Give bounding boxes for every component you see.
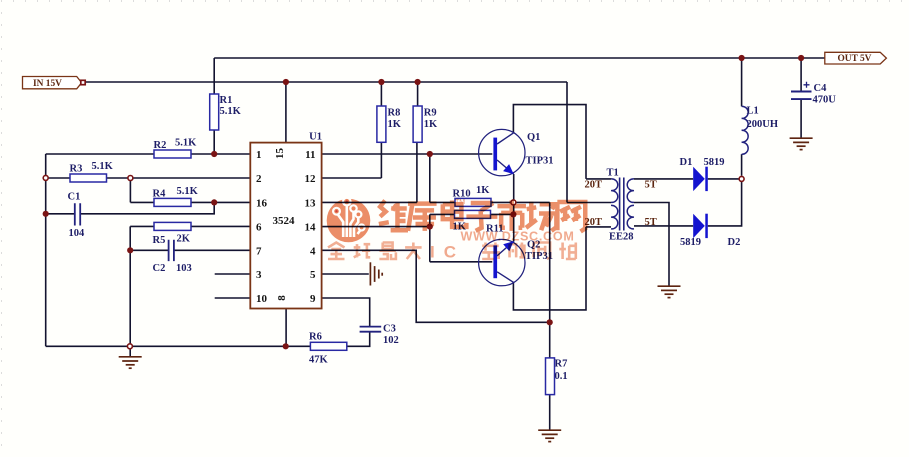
- ground (secondary center tap): [658, 286, 681, 297]
- svg-text:5.1K: 5.1K: [220, 106, 242, 117]
- svg-text:13: 13: [305, 198, 317, 210]
- svg-text:9: 9: [310, 293, 316, 305]
- junction: R4/pin16/C1: [211, 199, 217, 205]
- node IN 15V input port: [23, 77, 86, 90]
- resistor R11 1K: [455, 210, 491, 218]
- junction ring: R3 on ground bus: [43, 175, 48, 180]
- wire: C4 bottom to ground: [800, 99, 802, 137]
- wire: R2 right to pin 1: [191, 153, 250, 155]
- resistor R2 5.1K: [154, 150, 191, 158]
- wire: R5 right to pin 6: [191, 225, 250, 227]
- svg-text:R3: R3: [70, 164, 83, 175]
- junction: C2 branch: [127, 247, 133, 253]
- wire: bottom ground rail: [46, 345, 286, 347]
- junction: R11/emitter bus: [510, 211, 516, 217]
- wire: common emitter vertical: [513, 174, 515, 242]
- wire: pin 10 stub: [215, 297, 251, 299]
- wire joint: [213, 201, 215, 203]
- svg-text:WWW.DZSC.COM: WWW.DZSC.COM: [461, 230, 575, 244]
- transistor Q2 TIP31: [479, 239, 525, 285]
- svg-text:12: 12: [305, 173, 317, 185]
- svg-text:16: 16: [256, 198, 268, 210]
- wire: R10 right to emitter bus: [491, 201, 513, 203]
- wire: left ground bus vertical x=45.7: [45, 154, 47, 346]
- wire: output rail down to L1: [741, 58, 743, 106]
- svg-text:5: 5: [310, 269, 316, 281]
- wire: center-tap vertical x=567: [566, 82, 568, 203]
- wire: pin14 node vertical to R11/Q2 base: [429, 214, 431, 261]
- svg-text:R4: R4: [153, 189, 167, 200]
- capacitor C4 470U electrolytic: [791, 92, 812, 100]
- svg-text:R6: R6: [309, 332, 322, 343]
- ground (below C4): [790, 138, 813, 149]
- svg-text:5.1K: 5.1K: [92, 161, 114, 172]
- op-amp U1 3524 PWM controller box: [250, 143, 321, 309]
- junction ring: pin2 node: [128, 176, 133, 181]
- svg-text:10: 10: [256, 293, 268, 305]
- wire: pin 14 row: [322, 226, 430, 228]
- wire: pin 4 current sense run: [322, 250, 550, 322]
- wire: Q2 collector to T1 primary bottom: [513, 227, 586, 310]
- svg-text:Q1: Q1: [527, 132, 540, 143]
- svg-text:3: 3: [256, 269, 262, 281]
- wire: pin 13 to R9 bottom: [322, 201, 417, 203]
- wire: pin 11 to Q1 base: [322, 153, 493, 155]
- svg-text:OUT 5V: OUT 5V: [838, 54, 872, 64]
- svg-text:C4: C4: [814, 83, 828, 94]
- resistor R4 5.1K: [154, 198, 191, 206]
- svg-text:102: 102: [383, 335, 399, 346]
- svg-text:EE28: EE28: [609, 232, 634, 243]
- wire: secondary top to D1: [634, 178, 693, 180]
- svg-text:R9: R9: [424, 108, 437, 119]
- wire: to R11 left: [430, 213, 455, 215]
- svg-text:0.1: 0.1: [555, 371, 568, 382]
- svg-text:R1: R1: [220, 95, 233, 106]
- wire: R8 top: [380, 82, 382, 106]
- wire: pin11 node down to R10 left: [429, 154, 431, 202]
- svg-text:6: 6: [256, 222, 262, 234]
- resistor R9 1K: [413, 106, 422, 142]
- wire: pin15 supply from IN rail: [285, 82, 287, 143]
- svg-text:3524: 3524: [273, 215, 296, 227]
- wire: pin 12 to R8 bottom: [322, 177, 382, 179]
- svg-text:TIP31: TIP31: [526, 156, 554, 167]
- ground (below R7): [538, 430, 561, 441]
- junction: pin11 node: [427, 151, 433, 157]
- svg-text:L1: L1: [747, 106, 759, 117]
- wire: down to R7 top node: [549, 202, 551, 322]
- svg-text:1K: 1K: [388, 119, 402, 130]
- wire: pin 5 to ground: [322, 273, 369, 275]
- svg-text:104: 104: [69, 228, 86, 239]
- wire: Q1 collector to T1 primary top: [513, 105, 586, 179]
- wire: pin2 node down to R4 left: [129, 178, 131, 202]
- svg-text:200UH: 200UH: [747, 119, 779, 130]
- svg-text:D2: D2: [728, 237, 741, 248]
- wire: R11 right to emitter bus: [491, 213, 514, 215]
- svg-text:C2: C2: [153, 263, 166, 274]
- diode D1 5819: [693, 167, 708, 191]
- junction: pin14 node: [427, 224, 433, 230]
- wire: secondary center tap to ground: [634, 203, 669, 286]
- wire: R1 top from output rail: [213, 58, 215, 94]
- svg-text:1: 1: [256, 149, 262, 161]
- wire: R9 top: [417, 82, 419, 106]
- svg-text:2K: 2K: [177, 234, 191, 245]
- svg-text:C3: C3: [383, 324, 396, 335]
- svg-text:5T: 5T: [645, 180, 657, 191]
- svg-text:C1: C1: [68, 192, 81, 203]
- diode D2 5819: [693, 214, 708, 238]
- svg-text:IC: IC: [430, 243, 465, 262]
- junction: R1/R2/pin1: [211, 151, 217, 157]
- svg-text:47K: 47K: [309, 355, 329, 366]
- junction: C1 on ground bus: [43, 211, 49, 217]
- svg-text:8: 8: [276, 295, 288, 301]
- wire: R8 bottom lead: [380, 142, 382, 178]
- junction: C4 on output rail: [798, 55, 804, 61]
- capacitor C1 104: [75, 203, 80, 225]
- wire: D2 cathode up to L1 node: [708, 182, 742, 226]
- watermark dzsc.com logo and text: [327, 198, 586, 262]
- svg-text:5.1K: 5.1K: [177, 186, 199, 197]
- wire: R2 left to left ground bus: [46, 153, 154, 155]
- svg-text:R10: R10: [453, 188, 471, 199]
- wire: L1 bottom lead: [741, 154, 743, 176]
- svg-text:103: 103: [176, 263, 192, 274]
- resistor R5 2K: [154, 222, 191, 230]
- transformer T1 EE28 core: [620, 178, 624, 231]
- svg-text:1K: 1K: [476, 185, 490, 196]
- junction ring: ground stub on rail: [127, 344, 132, 349]
- wire: to R4 left: [130, 201, 154, 203]
- wire: R6 right up to C3 bottom: [347, 332, 370, 346]
- junction ring: R10/emitter bus: [511, 200, 516, 205]
- junction: R8 on IN rail: [378, 79, 384, 85]
- svg-text:R5: R5: [153, 235, 166, 246]
- wire: pin 3 stub: [215, 273, 251, 275]
- svg-text:R7: R7: [555, 359, 568, 370]
- wire: D1 cathode to L1 node: [708, 178, 742, 180]
- wire: R5/C2 branch vertical x=130: [129, 226, 131, 346]
- svg-text:D1: D1: [680, 157, 693, 168]
- wire: R3 right to pin 2: [107, 177, 251, 179]
- svg-text:2: 2: [256, 173, 262, 185]
- wire: R1 bottom to pin1 node: [213, 130, 215, 154]
- wire: pin 9 to C3 top: [322, 298, 370, 327]
- wire: to Q2 base: [430, 261, 493, 263]
- resistor R1 5.1K (feedback): [210, 94, 219, 130]
- resistor R10 1K: [455, 198, 491, 206]
- wire: T1 primary bottom lead: [586, 226, 611, 228]
- svg-text:TM: TM: [455, 199, 465, 206]
- svg-text:1K: 1K: [424, 119, 438, 130]
- svg-text:U1: U1: [309, 132, 322, 143]
- resistor R3 5.1K: [70, 174, 107, 182]
- junction ring: D1/D2/L1 node: [739, 176, 744, 181]
- junction: pin15 on IN rail: [283, 79, 289, 85]
- svg-text:14: 14: [305, 222, 317, 234]
- wire: emitter node to R7 branch: [513, 201, 549, 203]
- wire: R5 left: [130, 225, 154, 227]
- junction: R7 top / pin4 sense: [547, 319, 553, 325]
- junction: R9 on IN rail: [415, 79, 421, 85]
- junction: pin8/R6 on ground rail: [283, 343, 289, 349]
- resistor R6 47K: [310, 342, 346, 350]
- svg-text:11: 11: [305, 149, 315, 161]
- wire: pin 8 down to ground rail: [285, 309, 287, 347]
- svg-text:5819: 5819: [680, 237, 701, 248]
- wire: T1 primary top lead: [586, 178, 611, 180]
- svg-text:5T: 5T: [645, 217, 657, 228]
- svg-text:R8: R8: [388, 108, 401, 119]
- capacitor C3 102: [360, 327, 382, 332]
- svg-text:IN 15V: IN 15V: [33, 79, 62, 89]
- wire: R4 right to pin 16: [191, 201, 250, 203]
- svg-text:5.1K: 5.1K: [175, 138, 197, 149]
- svg-text:7: 7: [256, 246, 262, 258]
- wire: C1 left to ground bus: [46, 213, 75, 215]
- transformer T1 primary windings (20T+20T): [611, 179, 618, 229]
- wire: C4 top lead: [800, 58, 802, 91]
- svg-text:5819: 5819: [704, 157, 725, 168]
- svg-text:20T: 20T: [585, 180, 603, 191]
- svg-text:470U: 470U: [813, 95, 837, 106]
- wire: bus to R3 left: [46, 177, 70, 179]
- wire: R9 bottom lead: [416, 142, 418, 202]
- svg-text:T1: T1: [607, 168, 619, 179]
- transistor Q1 TIP31: [479, 129, 525, 175]
- svg-text:4: 4: [310, 246, 316, 258]
- wire: ground stub: [129, 346, 131, 357]
- wire: R4-right node down to C1 right: [81, 202, 215, 213]
- inductor L1 200UH: [742, 106, 749, 154]
- svg-text:R2: R2: [154, 140, 167, 151]
- wire: to R10 left: [430, 201, 455, 203]
- ground (pin 5, rotated right): [370, 262, 382, 285]
- wire: +5V output top rail y=58: [214, 57, 825, 59]
- junction: L1 on output rail: [739, 55, 745, 61]
- wire: C2 right to pin 7: [174, 249, 250, 251]
- node OUT 5V output port: [825, 52, 887, 64]
- wire: to R7 top: [549, 322, 551, 358]
- wire: IN 15V rail y=82: [84, 81, 567, 83]
- wire: primary center tap to T1: [567, 202, 611, 204]
- svg-text:15: 15: [274, 148, 286, 160]
- resistor R8 1K: [377, 106, 386, 142]
- wire: to R6 left: [286, 345, 311, 347]
- capacitor C2 103: [169, 240, 174, 261]
- wire: R7 bottom to ground: [549, 395, 551, 431]
- ground (left rail): [119, 357, 142, 368]
- wire: C2 left: [130, 249, 168, 251]
- wire: secondary bottom to D2: [634, 225, 693, 227]
- transformer T1 secondary windings (5T+5T): [627, 179, 634, 229]
- resistor R7 0.1 current sense: [546, 358, 555, 395]
